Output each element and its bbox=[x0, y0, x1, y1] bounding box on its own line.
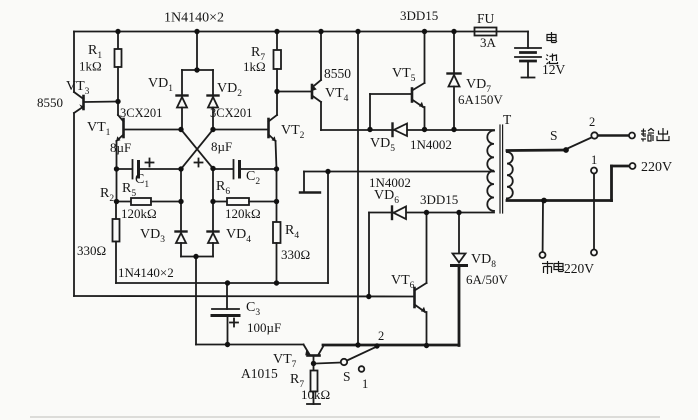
transistor VT7 bbox=[304, 345, 325, 364]
wire top rail bbox=[74, 31, 528, 33]
diode VD2 bbox=[208, 70, 219, 130]
wire secondary top to switch S bbox=[507, 149, 566, 152]
glyph 市 (mains) bbox=[542, 261, 553, 274]
glyph 电 (mains) bbox=[554, 261, 564, 272]
svg-text:3CX201: 3CX201 bbox=[120, 106, 162, 120]
diode VD1 bbox=[177, 70, 188, 130]
wire VT2 emitter column bbox=[276, 169, 278, 202]
resistor R6 bbox=[213, 198, 277, 205]
transistor VT1 bbox=[116, 102, 181, 170]
svg-text:220V: 220V bbox=[564, 261, 594, 276]
svg-text:12V: 12V bbox=[542, 62, 566, 77]
svg-text:3A: 3A bbox=[480, 35, 497, 50]
fuse FU bbox=[475, 28, 497, 36]
svg-text:10kΩ: 10kΩ bbox=[301, 387, 330, 402]
svg-text:8µF: 8µF bbox=[211, 139, 232, 154]
svg-text:3DD15: 3DD15 bbox=[400, 8, 438, 23]
wire mains terminal A bbox=[542, 201, 544, 253]
svg-text:8550: 8550 bbox=[37, 95, 63, 110]
faint scan line bottom bbox=[30, 416, 660, 418]
resistor R7 top bbox=[274, 32, 282, 92]
diode VD7 bbox=[448, 32, 461, 130]
svg-text:T: T bbox=[503, 112, 512, 127]
capacitor C2 bbox=[195, 159, 278, 179]
wire x358 vertical (top rail to VT7 collector line) bbox=[357, 32, 359, 346]
Chinese glyphs drawn as strokes bbox=[542, 32, 669, 274]
wire cross coupling diagonals bbox=[181, 130, 213, 169]
capacitor C1 bbox=[117, 159, 182, 179]
switch S top bbox=[569, 132, 598, 173]
transistor VT3 bbox=[74, 92, 118, 113]
glyph 输 (output) bbox=[641, 129, 654, 142]
capacitor C3 bbox=[212, 283, 239, 345]
resistor R5 bbox=[117, 198, 182, 205]
svg-text:8µF: 8µF bbox=[110, 140, 131, 155]
node top VD junction bbox=[196, 32, 198, 71]
svg-text:120kΩ: 120kΩ bbox=[121, 206, 157, 221]
svg-text:330Ω: 330Ω bbox=[281, 247, 310, 262]
wire VT1 emitter column bbox=[116, 169, 118, 202]
transistor VT6 bbox=[415, 213, 427, 346]
wire rail A bbox=[116, 282, 328, 284]
svg-text:330Ω: 330Ω bbox=[77, 243, 106, 258]
svg-text:FU: FU bbox=[477, 11, 495, 26]
wire contact2 to output terminal bbox=[598, 134, 629, 136]
glyph 出 (output) bbox=[657, 128, 669, 141]
svg-text:2: 2 bbox=[589, 115, 595, 129]
svg-text:S: S bbox=[343, 369, 351, 384]
terminal output bbox=[629, 133, 635, 139]
wire mains terminal B / contact 1 bbox=[593, 174, 595, 250]
resistor R4 bbox=[273, 202, 281, 284]
wire VD5 row (VT4 collector to transformer primary top) bbox=[321, 129, 494, 131]
svg-text:100µF: 100µF bbox=[247, 320, 281, 335]
terminal 220V bbox=[630, 163, 636, 169]
svg-text:A1015: A1015 bbox=[241, 366, 278, 381]
wire left rail lower (VT3 emitter to rail B) bbox=[73, 113, 75, 296]
svg-text:1N4140×2: 1N4140×2 bbox=[118, 265, 174, 280]
svg-text:1kΩ: 1kΩ bbox=[243, 59, 266, 74]
wire left rail upper bbox=[73, 32, 75, 93]
svg-text:1: 1 bbox=[591, 153, 597, 167]
transformer core bbox=[500, 125, 503, 213]
svg-text:S: S bbox=[550, 128, 558, 143]
svg-text:2: 2 bbox=[378, 329, 384, 343]
svg-text:120kΩ: 120kΩ bbox=[225, 206, 261, 221]
wire VD6 row bbox=[369, 212, 494, 214]
resistor R7 bottom bbox=[307, 364, 320, 405]
transistor VT5 bbox=[370, 32, 425, 130]
diode VD8 bbox=[452, 213, 467, 346]
svg-text:220V: 220V bbox=[641, 160, 672, 175]
svg-text:1N4140×2: 1N4140×2 bbox=[164, 11, 224, 26]
transformer T primary bbox=[487, 131, 494, 211]
resistor R1 bbox=[115, 32, 122, 102]
svg-text:1N4002: 1N4002 bbox=[410, 137, 452, 152]
wire center tap line with chassis ground bbox=[300, 172, 494, 284]
diode VD6 bbox=[392, 207, 406, 220]
svg-text:3CX201: 3CX201 bbox=[210, 106, 252, 120]
transistor VT4 bbox=[279, 32, 321, 131]
battery 12V bbox=[515, 32, 541, 78]
glyph 池 (battery) bbox=[546, 54, 558, 65]
wire bottom line left of VT7 bbox=[196, 344, 304, 346]
wire VD4 column top bbox=[212, 169, 214, 202]
wire rail B (bottom common to VT6 base) bbox=[74, 295, 414, 298]
transistor VT2 bbox=[214, 92, 278, 170]
wire VD3 column top bbox=[180, 169, 182, 202]
svg-text:8550: 8550 bbox=[324, 66, 351, 81]
diode VD3 bbox=[176, 202, 187, 257]
diode VD5 bbox=[393, 124, 408, 137]
wire VD3/VD4 junction bbox=[181, 256, 213, 258]
wire bottom line bold (VT7 collector) bbox=[323, 344, 459, 347]
glyph 电 (battery) bbox=[547, 32, 557, 43]
svg-text:3DD15: 3DD15 bbox=[420, 192, 458, 207]
svg-text:1kΩ: 1kΩ bbox=[79, 59, 102, 74]
diode VD4 bbox=[208, 202, 219, 257]
transformer T secondary bbox=[507, 151, 513, 201]
wire secondary bottom bbox=[507, 166, 630, 201]
svg-text:1: 1 bbox=[362, 377, 368, 391]
switch S bottom bbox=[317, 347, 378, 372]
resistor R2 bbox=[113, 202, 120, 284]
svg-text:6A/50V: 6A/50V bbox=[466, 272, 509, 287]
svg-text:6A150V: 6A150V bbox=[458, 92, 503, 107]
